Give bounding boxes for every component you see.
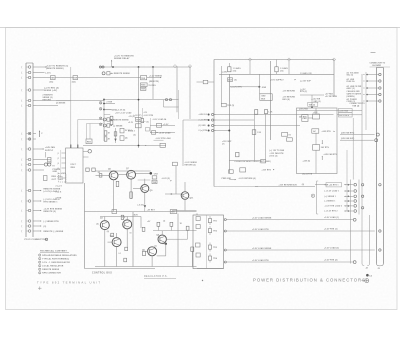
note 1 [39, 254, 41, 256]
terminal TER4 [141, 87, 146, 90]
wire Q3 collector [116, 233, 118, 238]
wire y=100.8 left stub [56, 100, 71, 102]
AC box [312, 129, 319, 133]
resistor R13 [125, 247, 128, 250]
mark C2 [366, 274, 369, 277]
suppressor box [152, 176, 157, 179]
wire vertical x=153 [152, 67, 154, 99]
stray dot [202, 280, 203, 281]
zone diamond D5 [332, 58, 335, 61]
mini strip lower pins [353, 218, 356, 221]
resistor R14 [124, 258, 127, 262]
wire x=158.3 [157, 226, 159, 230]
wire left pin row y=226 [36, 225, 40, 227]
wire y=114.8 exit [337, 114, 362, 116]
note 4 [39, 265, 41, 267]
bus x=366 upper [365, 72, 367, 130]
wire Q9 base [133, 188, 141, 190]
transistor Q7 [127, 170, 136, 179]
resistor R17 [170, 222, 173, 226]
wire y=134.6 fan rtn [340, 134, 375, 136]
pin circle y=140.2 [375, 139, 378, 142]
pot box P2 [120, 136, 124, 141]
tick mark top right [371, 51, 376, 53]
wire left pin row y=210.5 [36, 210, 40, 212]
resistor R11 [121, 215, 124, 219]
capacitor C5 box [44, 176, 48, 181]
wire row y=103.5 [104, 103, 115, 105]
connector P1/J1 pin 9 [21, 147, 36, 151]
connector P1/J1 pin 4 [21, 88, 36, 92]
relay TR4 [209, 256, 212, 260]
wire bottom y=210.5 [172, 210, 197, 212]
wire x=192.3 down [191, 251, 193, 266]
zone diamond D1 [173, 65, 176, 68]
wire vertical x=138.5 [138, 67, 140, 148]
note 3 [39, 261, 41, 263]
transistor Q5 [109, 171, 118, 180]
wire stub pin 6 [36, 105, 58, 107]
resistor R18 [186, 226, 189, 230]
wire Q5-Q7 link [118, 174, 127, 176]
vertical x=259.3 [258, 74, 260, 94]
wire inside fan box [315, 133, 317, 144]
resistor R15 [142, 227, 145, 231]
fusible link R31 [275, 67, 278, 72]
connector J3 strip [375, 68, 377, 264]
wire row y=109.5 [104, 109, 112, 111]
MOV box [228, 78, 233, 82]
resistor R34 [252, 130, 256, 135]
wire fan return to cluster row1 [315, 184, 326, 186]
connector J3 lower pins [379, 184, 381, 186]
wire Q7 emitter down [130, 179, 132, 199]
wire Q4 base row [166, 238, 187, 240]
terminal TER8 [152, 180, 157, 183]
wire y=95 fan feed [300, 94, 323, 96]
wire y=114.5 inside [214, 114, 334, 116]
adjust box dashed [59, 174, 67, 183]
wire Q1 emitter [104, 230, 106, 267]
wire Q9 collector [144, 179, 146, 185]
relay contact K1a [103, 118, 106, 121]
terminal block TER2 on sense line [73, 76, 78, 80]
wire y=180 segment [138, 179, 151, 181]
wire Q6 top link y=255.9 [157, 255, 166, 257]
transistor Q11 [181, 192, 189, 200]
wire 5V reg sense from pin 4 [36, 89, 44, 91]
wire node down x=165.8 [165, 244, 167, 256]
resistor R10 [130, 192, 133, 198]
wire x=312 fan drop [311, 95, 313, 108]
junction node under Q4 [161, 242, 163, 244]
boxed label +24V FAN B [339, 113, 353, 117]
terminal TER7 [157, 123, 162, 127]
resistor R7 [92, 168, 95, 171]
transistor Q9 [141, 185, 149, 193]
relay TR3 [209, 245, 212, 249]
wire Q3 emitter [116, 247, 118, 267]
wire left pin row y=201 [36, 200, 40, 202]
wire Q1 collector [104, 217, 106, 221]
wire y=125.5 inside [214, 125, 300, 127]
wire y=179.6 [229, 179, 235, 181]
resistor stack RA [110, 116, 113, 120]
zone diamond D3 [248, 58, 251, 61]
wire y=119.5 link [78, 119, 103, 121]
box at 145.5,127.5 [146, 128, 150, 132]
fuse circles on bus link [165, 99, 167, 101]
wire y=121.5 stub [141, 121, 146, 123]
junction node CR3 [150, 172, 153, 175]
voltage regulator U1 [66, 148, 83, 183]
distribution box outline [214, 59, 334, 61]
wire stub y=109.8 [104, 109, 115, 111]
aux box A3 [196, 243, 201, 247]
bus x=369.5 lower [369, 215, 371, 264]
resistor R16 [157, 222, 160, 226]
wire Q3 base [108, 241, 113, 243]
resistor R3 [114, 132, 117, 136]
wire pin 10 to fuse [36, 159, 48, 161]
vertical x=254.3 [253, 114, 255, 161]
connector P1/J1 pin 8 [21, 137, 36, 141]
riser x=90 to resistor [89, 124, 91, 140]
note 5 [39, 268, 41, 270]
resistor RB [141, 119, 144, 123]
connector P1/J1 pin 15 [21, 209, 36, 213]
vertical x=265.5 [265, 114, 267, 160]
long wire y=219.5 [224, 219, 226, 221]
connector J3 pins upper [379, 73, 381, 75]
connector P1/J1 pin 14 [21, 199, 36, 203]
transistor Q3 [112, 238, 121, 247]
wire base row y=175.4 [96, 174, 110, 176]
connector P1/J1 pin 12 [21, 168, 36, 172]
fan unit box outline [297, 108, 338, 174]
wire y=230.5 link [153, 230, 197, 232]
vertical x=229.3 main [228, 74, 230, 173]
wire x=142.4 riser [141, 108, 143, 119]
wire pin 12 stub [36, 169, 44, 171]
second pin column [361, 184, 363, 186]
wire +5.2V sense line from pin 3 [36, 77, 51, 79]
label +5.2V RTN [230, 86, 231, 87]
bus x=362 [361, 74, 363, 264]
transistor Q4 [158, 235, 166, 243]
boxed label TER24 [308, 102, 318, 106]
test point TP2 [88, 150, 91, 153]
mini strip [350, 180, 352, 264]
resistor box R5 [86, 139, 92, 144]
wire x=187.5 [187, 230, 189, 239]
wire inner x=206.5 [206, 215, 208, 269]
bottom rail to control bus [85, 268, 156, 270]
wire y=86.8 [230, 86, 259, 88]
terminal block TER1 on sense line [51, 76, 56, 80]
circled E bracket [311, 194, 314, 197]
bus x=347 [346, 150, 348, 211]
wire -2V from pin 2 [36, 72, 45, 74]
zone diamond D2 [188, 65, 191, 68]
resistor R35 [236, 152, 239, 156]
test point TP1 [102, 72, 105, 75]
wire top bus y=67 [100, 66, 191, 68]
wire vertical x=104 [103, 98, 105, 141]
fusible link R30 [228, 67, 231, 72]
resistor R1 [104, 131, 107, 135]
wire Q7 to node CR3 [136, 172, 151, 174]
wire +5.2V bus from pin 1 [36, 66, 46, 68]
wire y=99.6 bus link [104, 99, 179, 101]
wire Q2 emitter [126, 229, 128, 247]
note 2 [39, 257, 41, 259]
wire Q6 emitter [151, 256, 153, 267]
pin link circles left [99, 102, 102, 105]
wire left pin row y=231 [36, 230, 40, 232]
wire Q6 base [143, 250, 148, 252]
wire y=120 inside [214, 119, 254, 121]
connector P1/J1 pin 1 [21, 65, 36, 69]
resistor R8 with label 82 [99, 174, 102, 178]
wire Q5 emitter down [113, 180, 115, 212]
bus x=353 upper [352, 118, 354, 180]
resistor R32 [255, 110, 258, 115]
regulator aux box [141, 83, 148, 87]
wire left pin row y=190.5 [36, 190, 40, 192]
connector P1/J1 pin 16 [21, 219, 36, 223]
vertical x=270.3 [269, 61, 271, 140]
vertical x=178 [177, 214, 179, 267]
connector P1/J1 pin 10 [21, 158, 36, 162]
aux box A4 [196, 253, 200, 257]
wire +24V fan supply from pin 9 [36, 148, 43, 150]
aux box A2 [196, 225, 200, 229]
note 6 [39, 272, 41, 274]
connector P1/J1 pin 13 [21, 189, 36, 193]
diode CR4 [144, 205, 146, 208]
resistor R6 [86, 168, 89, 171]
wire rows upper cluster [104, 114, 110, 116]
vertical x=141 [140, 217, 142, 229]
arrow symbol up [39, 132, 41, 138]
wire y=110.4 through fan box [297, 109, 363, 111]
wire Q11 emitter [184, 199, 186, 210]
fan cap box [313, 114, 320, 119]
mark circled plus [362, 280, 365, 282]
terminal box on 145 wire [160, 143, 165, 147]
zone diamond D4 [287, 58, 290, 61]
pot box P1 [120, 128, 124, 133]
bus y=216.5 [100, 216, 141, 218]
pin x-marks rows 7-8 [29, 133, 31, 135]
left exit TER12 [203, 80, 208, 84]
wire x=171.3 [170, 226, 172, 230]
long wire y=231.0 [224, 230, 226, 232]
rail +5V y=74.3 [219, 73, 334, 75]
U1 left pins [62, 152, 66, 154]
wire left column dashes [60, 150, 62, 180]
wire Q2 collector [126, 217, 128, 220]
arrow marks vertical [321, 140, 323, 144]
relay driver box outline [193, 215, 224, 269]
fan motor box [302, 115, 308, 122]
wire Q11 collector [184, 182, 186, 192]
wire y=145.5 to fan label [83, 145, 166, 147]
transistor Q1 [100, 221, 109, 230]
wire left pin row y=221 [36, 220, 40, 222]
terminal TER13 [173, 162, 178, 166]
connector P1/J1 pin 3 [21, 76, 36, 80]
long wire y=262.0 [224, 261, 226, 263]
wire base bus y=171 [96, 170, 151, 172]
wire x=150.5 riser [150, 118, 152, 133]
long wire y=250.0 [224, 249, 226, 251]
fan return box [313, 145, 320, 151]
bus line y=211.5 [85, 211, 197, 213]
delay box [261, 159, 266, 163]
wire y=130.5 stub [214, 130, 229, 132]
GND BUS box [260, 94, 272, 101]
fuse F1 [44, 152, 46, 158]
vertical x=221.5 [221, 66, 223, 104]
wire vertical x=176 [175, 166, 177, 194]
box bottom y=186.5 [214, 186, 258, 188]
wire x=183 riser [182, 120, 184, 166]
pin circle y=134.6 [376, 133, 379, 136]
connector P1/J1 pin 2 [21, 71, 36, 75]
fuse box F3 [152, 131, 156, 135]
group bracket line [316, 181, 318, 214]
wire left edge x=84.5 [84, 183, 86, 269]
wire +5.2V load y=132.5 [150, 132, 175, 134]
connector P1/J1 pin 18 [21, 229, 36, 233]
wire y=160.7 [229, 160, 260, 162]
relay contact K1b [103, 124, 106, 127]
connector P1/J1 body [25, 63, 27, 237]
resistor R19 [143, 251, 146, 255]
diode CR1 [114, 139, 116, 142]
connector P1/J1 pin 17 [21, 224, 36, 228]
terminal TER10 on bus [170, 210, 177, 214]
wire Q11 base row [165, 193, 181, 195]
terminal TER6 [136, 124, 142, 128]
terminal TER11 [222, 103, 227, 107]
terminal TER5 [136, 117, 142, 121]
transistor Q2 [123, 220, 132, 229]
relay TR2 [209, 229, 212, 233]
vertical bus x=133 [132, 212, 134, 267]
page top scan edge [0, 27, 400, 29]
transistor Q6 [148, 247, 157, 256]
revision mark [38, 287, 42, 290]
relay TR1 [209, 219, 212, 223]
wire Q9 emitter [144, 193, 146, 205]
terminal TER14 [229, 170, 234, 174]
resistor R21 [191, 247, 194, 251]
connector P1/J1 pin 6 [21, 104, 36, 108]
wire Q4 collector [161, 231, 163, 235]
label +5.2V to remote sense relay [111, 60, 112, 61]
wire y=140.2 labels [154, 139, 164, 141]
wire from pin 5 to node [36, 100, 104, 102]
aux box B1 [240, 168, 246, 172]
vertical x=289 [288, 61, 290, 74]
resistor R33 [264, 110, 267, 114]
node circles on top bus [99, 66, 101, 68]
vertical x=250 [249, 61, 251, 74]
resistor R12 [111, 233, 114, 237]
wire y=107 return link [164, 106, 179, 108]
bottom bus y=266.5 [95, 266, 197, 268]
wire vertical x=190 [189, 66, 191, 119]
wire x=163.5 jog [163, 100, 165, 107]
connector P1/J1 pin 5 [21, 99, 36, 103]
U1 top pin risers [70, 67, 72, 148]
aux box A1 [196, 217, 200, 221]
resistor R9 [116, 181, 119, 186]
riser x=86.5 to resistor [86, 124, 88, 140]
wire y=123.5 link [87, 123, 104, 125]
boxed label +24V FAN A [339, 108, 353, 112]
relay K1 [282, 133, 288, 137]
terminal TER9 on bus [112, 210, 117, 214]
connector P1/J1 pin 7 [21, 132, 36, 136]
terminal TER3 on sense line [141, 76, 147, 80]
wire fan links [308, 117, 313, 119]
wire y=140.2 fan rtn [340, 139, 374, 141]
resistor R2 [104, 137, 107, 141]
fuse F2 circles [36, 164, 44, 166]
wire +5.2V right y=125.4 [150, 124, 175, 126]
U1 right pins [83, 150, 88, 152]
wire chain x=115.5 [115, 128, 117, 143]
connector P1/J1 pin 11 [21, 163, 36, 167]
relay K1 aux [287, 138, 293, 141]
resistor R20 [107, 72, 110, 75]
wire vertical x=177 [176, 66, 178, 112]
